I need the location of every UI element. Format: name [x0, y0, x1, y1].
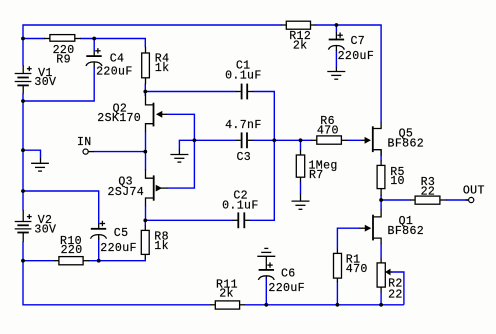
wire left rail upper (V1 top feed)	[22, 39, 24, 66]
wire R7 bottom to ground	[300, 182, 302, 194]
wire left rail V1 bottom to V2 top	[22, 93, 24, 210]
wire R9 to C4 node to R4 top	[80, 39, 145, 48]
wire R6 to Q5 gate	[347, 139, 363, 141]
wire IN to source node	[94, 151, 146, 153]
junction dot Q3 source node	[143, 219, 147, 223]
wire output node down to Q1 drain	[380, 200, 382, 210]
ground (under C7)	[327, 67, 345, 79]
svg-text:1k: 1k	[155, 62, 170, 75]
svg-text:220uF: 220uF	[100, 242, 137, 255]
wire R1 bottom to bottom rail	[336, 282, 338, 305]
wire gate bus down to Q3 gate	[167, 140, 194, 188]
wire R7 top lead	[300, 140, 302, 150]
svg-text:220uF: 220uF	[268, 282, 305, 295]
resistor R3	[410, 196, 446, 204]
wire R9 row from left rail	[23, 38, 45, 40]
capacitor C3	[236, 132, 253, 148]
ground (left, at rail)	[31, 158, 49, 171]
wire R8 top lead	[144, 221, 146, 227]
wire V2 top node to C5 top	[23, 191, 99, 224]
wire R2 bottom to bottom rail	[380, 292, 382, 305]
wire C5 bottom lead	[98, 238, 100, 261]
wire Q3 source down to R8 node	[145, 205, 147, 220]
capacitor C6 (polarized)	[258, 256, 274, 280]
wire C1 right to vertical bus	[253, 92, 275, 141]
wire C7 top lead	[335, 25, 337, 33]
junction dot C4 top node	[92, 37, 96, 41]
svg-text:470: 470	[346, 263, 368, 276]
junction dot V2 top node	[21, 189, 25, 193]
battery V2	[15, 210, 32, 242]
wire left rail V2 bottom to bottom rail	[23, 242, 211, 305]
resistor R8	[141, 226, 149, 259]
svg-text:4.7nF: 4.7nF	[225, 119, 262, 132]
svg-text:22: 22	[421, 185, 436, 198]
wire R3 to OUT port	[446, 199, 469, 201]
wire bottom rail right of R11	[245, 304, 404, 306]
junction dot gate node	[193, 138, 197, 142]
wire C1 row left (node A to C1)	[145, 91, 236, 93]
R2 wiper arrow	[386, 269, 393, 275]
wire R5 bottom to output node	[380, 195, 382, 200]
svg-text:C7: C7	[351, 35, 366, 48]
capacitor C7 (polarized)	[328, 32, 344, 51]
wire R4 bottom to Q2 drain node	[144, 84, 146, 96]
svg-text:2k: 2k	[293, 40, 308, 53]
wire Q1 source to R2 top	[380, 243, 382, 258]
battery V1	[15, 65, 32, 94]
wire V+ top rail	[23, 25, 282, 39]
resistor R12	[281, 21, 316, 29]
junction dot R2 bottom node	[379, 303, 383, 307]
ground (gate node)	[170, 149, 188, 162]
transistor Q1 (BF862 JFET)	[359, 209, 381, 243]
junction dot V2 bottom node	[21, 259, 25, 263]
svg-text:C5: C5	[114, 227, 129, 240]
svg-text:2k: 2k	[219, 288, 234, 301]
svg-text:C4: C4	[110, 53, 125, 66]
svg-text:BF862: BF862	[388, 225, 425, 238]
svg-text:OUT: OUT	[463, 184, 485, 197]
wire C4 bottom to left rail	[23, 67, 94, 101]
svg-text:2SK170: 2SK170	[97, 112, 141, 125]
svg-text:IN: IN	[77, 136, 92, 149]
ground (under R7)	[292, 194, 310, 210]
wire R8 bottom to C5 node	[99, 258, 146, 260]
wire C3 right to R6 node	[252, 139, 300, 141]
wire R8 node to C2	[146, 219, 234, 221]
wire Q2 gate to gate bus	[167, 114, 195, 140]
svg-text:2SJ74: 2SJ74	[108, 186, 145, 199]
junction dot C5 bottom node	[97, 259, 101, 263]
wire output node to R3	[381, 199, 410, 201]
wire C6 bottom to bottom rail	[265, 278, 267, 305]
junction dot R1 bottom node	[336, 303, 340, 307]
wire gate node to middle ground	[179, 140, 194, 149]
svg-text:22: 22	[388, 288, 403, 301]
capacitor C2	[233, 212, 250, 228]
svg-text:220uF: 220uF	[96, 65, 133, 78]
resistor R10	[54, 257, 89, 265]
resistor R4	[142, 47, 150, 84]
wire R10 row left	[23, 260, 55, 262]
svg-text:30V: 30V	[34, 223, 56, 236]
transistor Q2 (2SK170 N-JFET)	[146, 94, 167, 132]
wire C4 top lead	[93, 39, 95, 52]
junction dot IN node	[143, 150, 147, 154]
svg-text:0.1uF: 0.1uF	[225, 70, 262, 83]
wire R7 node to R6	[301, 139, 312, 141]
junction dot cap bus node	[272, 138, 276, 142]
svg-text:BF862: BF862	[388, 138, 425, 151]
wire Q2 source down to IN node	[145, 131, 147, 152]
capacitor C1	[236, 84, 253, 100]
resistor R1	[334, 249, 342, 282]
junction dot C6 bottom node	[264, 303, 268, 307]
junction dot R7 top node	[299, 138, 303, 142]
junction dot V1 bottom node	[21, 99, 25, 103]
junction dot output node	[379, 198, 383, 202]
svg-text:220: 220	[61, 244, 83, 257]
resistor R5	[377, 150, 385, 196]
junction dot Q2 drain node	[143, 90, 147, 94]
wire C7 bottom to ground	[335, 50, 337, 67]
junction dot V1 top node	[21, 37, 25, 41]
svg-text:30V: 30V	[34, 76, 56, 89]
svg-text:C3: C3	[236, 151, 251, 164]
port IN	[83, 149, 94, 154]
wire top rail right of R12 to Q5 drain drop	[315, 25, 381, 123]
wire Q1 gate to R1 top	[337, 228, 359, 249]
transistor Q5 (BF862 JFET)	[362, 122, 381, 155]
wire R2 wiper return to bottom rail	[392, 272, 404, 305]
resistor R7	[296, 150, 304, 182]
resistor R6	[311, 136, 347, 144]
wire Q5 source to R5	[380, 155, 382, 161]
wire IN node down to Q3 drain	[145, 152, 147, 170]
svg-text:10: 10	[390, 175, 405, 188]
capacitor C5 (polarized)	[91, 221, 107, 240]
junction dot C7 top node	[335, 23, 339, 27]
svg-text:470: 470	[317, 125, 339, 138]
wire gate node to C3	[194, 139, 236, 141]
inverted ground / minus rail (above C6)	[257, 248, 275, 256]
svg-text:R9: R9	[56, 53, 71, 66]
resistor R9	[44, 35, 81, 42]
svg-text:0.1uF: 0.1uF	[222, 199, 259, 212]
svg-text:C6: C6	[281, 268, 296, 281]
transistor Q3 (2SJ74 P-JFET)	[146, 169, 168, 205]
resistor R11	[210, 301, 245, 309]
resistor R2 (with wiper)	[377, 258, 385, 292]
port OUT	[466, 197, 474, 202]
junction dot ground branch node	[21, 148, 25, 152]
svg-text:1k: 1k	[154, 240, 169, 253]
svg-text:220uF: 220uF	[338, 50, 375, 63]
wire R10 to C5 node	[89, 260, 99, 262]
wire ground stub at left rail	[23, 150, 41, 158]
wire vertical bus C1/C3 node down to C2 row	[250, 140, 274, 220]
capacitor C4 (polarized)	[86, 48, 102, 67]
svg-text:R7: R7	[309, 169, 324, 182]
